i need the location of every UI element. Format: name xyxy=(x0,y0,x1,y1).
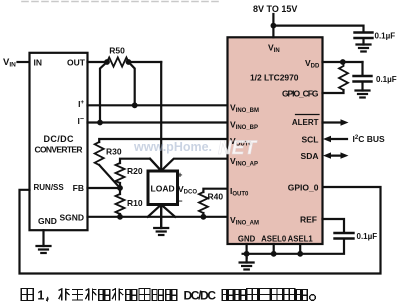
wire R50 right to corner xyxy=(129,61,162,63)
wire ALERT arrow xyxy=(323,119,349,125)
resistor R20 xyxy=(116,163,143,183)
svg-text:8V TO 15V: 8V TO 15V xyxy=(253,4,297,14)
wire GPIO_CFG xyxy=(323,90,344,93)
svg-text:ASEL0: ASEL0 xyxy=(261,235,287,244)
wire SDA arrow xyxy=(323,152,349,158)
ground C1 xyxy=(357,45,371,52)
junction dot FB node xyxy=(117,185,123,191)
wire IOUT0 to R40 xyxy=(203,189,227,192)
svg-text:+: + xyxy=(178,170,183,180)
wire SCL arrow xyxy=(323,136,347,142)
wire R10 stubs xyxy=(119,188,121,194)
node VIN label xyxy=(3,57,16,69)
svg-text:SGND: SGND xyxy=(59,213,84,223)
svg-text:RUN/SS: RUN/SS xyxy=(34,183,65,192)
capacitor C3 0.1uF xyxy=(335,232,378,241)
junction dot R40 xyxy=(201,214,207,220)
capacitor C1 0.1uF xyxy=(355,32,396,45)
caption period xyxy=(310,295,316,301)
caption hanzi r2c0 xyxy=(222,290,233,301)
resistor R30 xyxy=(95,142,122,165)
svg-text:LOAD: LOAD xyxy=(151,184,175,194)
caption hanzi r2c6 xyxy=(296,290,307,301)
caption hanzi r1c7 xyxy=(152,290,163,301)
svg-text:GPIO_0: GPIO_0 xyxy=(288,183,319,193)
svg-text:GND: GND xyxy=(238,235,256,244)
svg-text:DC/DC: DC/DC xyxy=(44,134,75,144)
wire R20 to FB node xyxy=(119,183,121,188)
junction dot I- xyxy=(97,120,103,126)
ground C2 xyxy=(356,91,370,98)
caption hanzi r2c4 xyxy=(272,289,283,301)
wire GND drop xyxy=(246,244,248,258)
caption hanzi r1c6 xyxy=(139,289,150,301)
svg-text:REF: REF xyxy=(300,215,317,225)
svg-text:–: – xyxy=(178,196,183,206)
junction dot ASEL0 xyxy=(271,251,277,257)
load fan top xyxy=(150,159,161,171)
junction dot supply xyxy=(271,23,277,29)
wire load to ground xyxy=(160,205,162,228)
caption hanzi r1c3 xyxy=(99,290,110,301)
svg-text:SCL: SCL xyxy=(302,135,319,145)
capacitor C2 0.1uF xyxy=(354,62,397,91)
svg-text:IN: IN xyxy=(34,58,43,68)
resistor R50 xyxy=(107,46,129,67)
svg-text:R40: R40 xyxy=(208,192,224,202)
wire ASEL1 drop xyxy=(299,244,301,254)
wire GPIO_0 / RUN/SS loop xyxy=(20,187,381,274)
ground IC xyxy=(240,258,254,270)
junction dot R50 right xyxy=(126,59,132,65)
wire R50 right sense tap xyxy=(129,62,135,105)
load fan bottom xyxy=(148,205,161,217)
svg-text:R50: R50 xyxy=(109,46,125,56)
ground load xyxy=(154,228,168,235)
wire VIN supply xyxy=(272,14,274,37)
caption hanzi r1c1 xyxy=(72,290,83,301)
caption hanzi r1c4 xyxy=(112,289,123,301)
svg-text:DC/DC: DC/DC xyxy=(184,289,217,303)
svg-text:ASEL1: ASEL1 xyxy=(288,235,314,244)
svg-text:www.pHome.: www.pHome. xyxy=(133,140,212,154)
wire OUT xyxy=(88,61,108,63)
wire VOUT0 to R30 xyxy=(99,139,227,142)
op-amp U1 : IC 1/2 LTC2970 xyxy=(228,37,323,244)
svg-text:I2C BUS: I2C BUS xyxy=(353,134,385,144)
svg-text:CONVERTER: CONVERTER xyxy=(35,145,83,155)
wire ASEL0 drop xyxy=(273,244,275,254)
svg-text:GPIO_CFG: GPIO_CFG xyxy=(282,89,319,99)
wire FB xyxy=(88,187,121,189)
wire VDD xyxy=(323,61,363,63)
wire R40 bottom xyxy=(202,213,204,217)
caption hanzi r1c2 xyxy=(85,289,96,301)
svg-text:NET: NET xyxy=(218,138,257,159)
caption hanzi r2c3 xyxy=(259,289,270,301)
resistor R_VDD xyxy=(339,62,348,93)
resistor R10 xyxy=(116,194,143,214)
svg-text:SDA: SDA xyxy=(301,151,319,161)
caption hanzi r1c8 xyxy=(166,290,177,301)
junction dot R10 bottom xyxy=(117,214,123,220)
wire R20 top corner xyxy=(120,159,161,171)
junction dot R50 left xyxy=(104,59,110,65)
svg-text:GND: GND xyxy=(38,216,57,226)
svg-text:R10: R10 xyxy=(127,198,143,208)
wire to C1 xyxy=(273,26,363,32)
wire vertical from OUT rail to load top xyxy=(160,62,162,171)
svg-text:0.1µF: 0.1µF xyxy=(357,232,378,241)
wire R30 to FB node xyxy=(99,165,120,188)
junction dot GND xyxy=(244,251,250,257)
caption figure 1 xyxy=(21,289,315,303)
svg-text:R30: R30 xyxy=(106,147,122,157)
junction dot VDD xyxy=(340,59,346,65)
junction dot ASEL1 xyxy=(297,251,303,257)
LOAD box xyxy=(148,171,178,205)
wire R50 left sense tap xyxy=(100,62,107,123)
wire SGND to VINO_AM xyxy=(88,216,228,218)
svg-text:R20: R20 xyxy=(127,166,143,176)
resistor R40 xyxy=(199,192,223,214)
wire VIN to IN xyxy=(18,61,30,63)
svg-text:0.1µF: 0.1µF xyxy=(375,32,396,41)
svg-text:1: 1 xyxy=(37,289,44,303)
wire I- to VINO_BP xyxy=(88,121,228,123)
caption char TU xyxy=(21,289,33,301)
caption hanzi r1c0 xyxy=(59,289,70,301)
ground DC/DC xyxy=(37,246,51,253)
svg-text:1/2 LTC2970: 1/2 LTC2970 xyxy=(250,73,299,83)
wire C3 return to ground bus xyxy=(243,240,344,254)
svg-text:ALERT: ALERT xyxy=(292,118,319,127)
DC/DC converter U2 box xyxy=(30,53,88,230)
svg-text:OUT: OUT xyxy=(67,58,86,68)
cropped header text remnant xyxy=(22,1,222,3)
wire REF to C3 xyxy=(323,219,345,233)
caption hanzi r2c5 xyxy=(284,289,295,301)
wire DC/DC GND xyxy=(42,230,44,246)
caption hanzi r1c5 xyxy=(126,290,137,301)
caption hanzi r2c2 xyxy=(247,289,258,301)
svg-text:FB: FB xyxy=(73,183,84,193)
wire I+ to VINO_BM xyxy=(88,104,228,106)
junction dot I+ xyxy=(132,102,138,108)
caption hanzi r2c1 xyxy=(235,290,246,301)
svg-text:0.1µF: 0.1µF xyxy=(376,75,397,84)
